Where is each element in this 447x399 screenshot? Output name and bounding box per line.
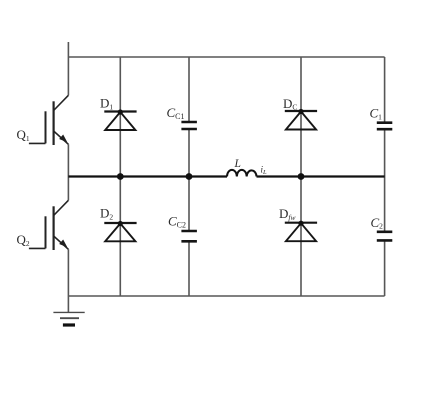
- svg-text:Q1: Q1: [17, 127, 30, 143]
- svg-text:CC2: CC2: [168, 214, 186, 230]
- svg-text:L: L: [234, 158, 241, 170]
- svg-text:Dfw: Dfw: [279, 206, 295, 222]
- svg-text:CC1: CC1: [167, 105, 185, 121]
- svg-text:Q2: Q2: [17, 232, 30, 248]
- svg-text:C2: C2: [371, 215, 384, 231]
- svg-text:D2: D2: [100, 206, 113, 222]
- svg-text:D1: D1: [100, 96, 113, 112]
- svg-text:DC: DC: [283, 96, 297, 112]
- svg-text:iL: iL: [261, 165, 268, 176]
- svg-text:C1: C1: [370, 106, 383, 122]
